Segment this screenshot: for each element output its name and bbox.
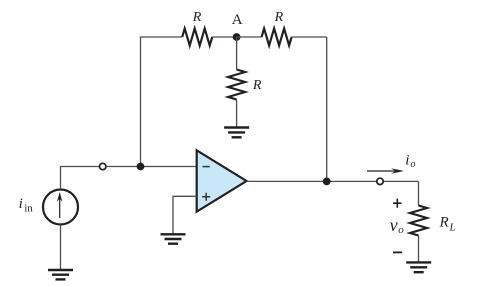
resistor R1	[182, 29, 212, 46]
op-amp non-inverting input label	[202, 193, 210, 201]
wire	[106, 166, 197, 168]
op-amp inverting input label	[203, 166, 210, 168]
node A	[233, 33, 241, 41]
junction	[137, 163, 145, 171]
svg-text:i: i	[405, 152, 409, 168]
wire	[326, 37, 328, 181]
svg-text:A: A	[232, 12, 243, 28]
wire	[60, 225, 62, 271]
svg-text:v: v	[390, 215, 398, 235]
svg-text:o: o	[398, 224, 404, 236]
wire	[237, 36, 262, 38]
terminal	[377, 178, 383, 184]
svg-text:R: R	[192, 10, 202, 25]
svg-text:o: o	[411, 159, 416, 170]
junction	[323, 178, 331, 186]
wire	[236, 37, 238, 70]
label io current arrow	[367, 168, 404, 173]
wire	[418, 181, 420, 205]
svg-text:L: L	[449, 222, 456, 234]
current source I1	[43, 190, 78, 225]
svg-text:R: R	[274, 10, 284, 25]
wire	[236, 100, 238, 128]
resistor R3	[228, 70, 245, 100]
svg-text:in: in	[24, 202, 33, 214]
wire	[173, 196, 197, 234]
wire	[61, 167, 100, 190]
wire	[141, 37, 183, 163]
wire	[292, 36, 327, 38]
op-amp U1	[197, 150, 247, 211]
terminal	[100, 163, 106, 169]
resistor R2	[262, 29, 292, 46]
wire	[247, 180, 419, 182]
svg-text:i: i	[19, 196, 23, 212]
label vo plus	[393, 199, 401, 208]
ground	[48, 270, 73, 279]
svg-text:R: R	[252, 78, 262, 93]
ground	[406, 262, 431, 272]
wire	[418, 236, 420, 263]
svg-text:R: R	[439, 215, 449, 231]
label vo minus	[393, 251, 402, 253]
wire	[212, 36, 236, 38]
resistor RL	[410, 206, 427, 236]
ground	[161, 234, 186, 243]
ground	[224, 128, 249, 138]
